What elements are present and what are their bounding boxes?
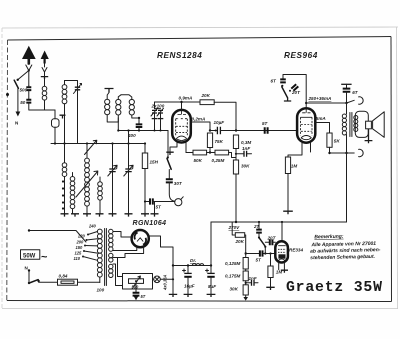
ground bar under cathode: [166, 152, 173, 155]
wire: field coil down to B+ bus: [346, 135, 348, 223]
voice coil: [366, 121, 372, 129]
resistor 50K: [193, 150, 207, 163]
wire: B+ filter line: [173, 265, 211, 267]
coil L5 (bandfilter secondary b): [121, 95, 139, 118]
resistor 20K (screen feed): [232, 222, 246, 254]
wire: socket to AVC bus: [54, 127, 56, 143]
svg-text:30K: 30K: [230, 287, 239, 292]
ground bar row: [61, 214, 159, 217]
coil L9: [98, 177, 103, 214]
variable capacitor CV2 (gang 2): [124, 129, 133, 213]
socket box (pickup jack): [52, 119, 60, 127]
svg-text:220: 220: [77, 234, 86, 239]
wire: cathode row: [186, 152, 193, 154]
wire: grid line y253.5: [246, 253, 276, 255]
svg-text:100: 100: [97, 288, 105, 293]
svg-text:stehenden Schema gebaut.: stehenden Schema gebaut.: [310, 254, 375, 261]
svg-text:RE334: RE334: [289, 248, 303, 253]
capacitor 20T (anode RE334): [265, 236, 276, 246]
trimmer capacitors 2x100: [151, 102, 165, 132]
svg-text:30K: 30K: [241, 164, 250, 169]
capacitor 5T (coupling): [262, 121, 269, 134]
svg-text:Dr.: Dr.: [190, 258, 196, 263]
wire: cathode to 5K: [315, 123, 329, 134]
coil L4 (bandfilter secondary a): [116, 95, 121, 131]
wire: grid top cap line: [155, 102, 201, 110]
svg-text:5T: 5T: [262, 121, 269, 126]
svg-text:1nF: 1nF: [242, 146, 250, 151]
node anode: [209, 129, 211, 131]
wire: RE334 plate riser: [281, 222, 283, 242]
plug (upper): [347, 97, 364, 104]
svg-text:Graetz 35W: Graetz 35W: [286, 280, 383, 296]
coil L7 (osc b with taps): [70, 173, 75, 214]
choke 15H: [142, 142, 158, 213]
earth arrow N: [16, 112, 21, 117]
wire: mains line top: [29, 231, 86, 243]
ground bar over bandfilter: [105, 89, 114, 93]
switch S2 (tone): [167, 156, 172, 169]
switch S-earth: [14, 79, 19, 89]
capacitor 50 (antenna): [20, 100, 55, 110]
resistor 0.175M: [225, 271, 248, 285]
svg-text:20K: 20K: [235, 239, 245, 244]
capacitor 16uF: [183, 266, 195, 298]
capacitor 2T + switch: [253, 222, 266, 255]
capacitor 5T (phone): [144, 198, 175, 209]
wire: lower plug line: [330, 149, 364, 156]
resistor 0.25M: [212, 150, 237, 163]
schematic border frame: [7, 37, 392, 302]
svg-text:1M: 1M: [291, 164, 298, 169]
svg-text:20K: 20K: [201, 93, 211, 98]
svg-text:50: 50: [20, 100, 26, 105]
svg-text:RENS1284: RENS1284: [157, 51, 202, 60]
svg-text:270V: 270V: [228, 225, 241, 230]
svg-text:30T: 30T: [174, 181, 183, 186]
svg-text:240: 240: [88, 224, 97, 229]
svg-text:5mA: 5mA: [316, 116, 326, 121]
fuse 0.84: [39, 273, 100, 285]
capacitor 400: [127, 118, 142, 138]
svg-text:500: 500: [20, 88, 28, 93]
speaker frame: [355, 111, 368, 137]
svg-text:20T: 20T: [291, 90, 301, 95]
svg-text:N: N: [15, 121, 19, 126]
wire: socket top: [54, 110, 56, 119]
svg-text:RGN1064: RGN1064: [133, 220, 167, 227]
tap dots of L7: [62, 180, 64, 209]
wire: sockets to chassis bar x154.5: [154, 202, 156, 214]
wire: drop from bus to tone switch: [167, 131, 169, 158]
wire: RES964 top to 250+36mA line: [305, 103, 307, 108]
mains switch: [25, 265, 40, 284]
dial lamp: [153, 276, 175, 283]
antenna arrow A2 (small): [41, 51, 49, 64]
box 50W: [21, 250, 49, 264]
capacitor 500 (antenna): [20, 86, 32, 100]
svg-text:0,9mA: 0,9mA: [179, 96, 193, 101]
svg-text:Bemerkung:: Bemerkung:: [314, 234, 344, 241]
svg-text:4x0,36A: 4x0,36A: [163, 274, 168, 291]
wire: 250+36mA line: [306, 102, 346, 104]
resistor 30K: [233, 160, 250, 222]
resistor 1M (grid leak RES964): [283, 157, 297, 214]
tap labels: [74, 224, 97, 262]
svg-text:5T: 5T: [256, 258, 263, 263]
svg-text:6T: 6T: [271, 79, 278, 84]
capacitor 10uF: [210, 120, 225, 134]
capacitor 6T (speaker top): [341, 84, 359, 104]
tube RES964: [297, 108, 315, 143]
ground under voice coil: [365, 129, 373, 143]
wire: coupling line to RES964 grid: [225, 130, 297, 132]
wire: bus y130: [118, 130, 168, 132]
heater box with 500 pot: [123, 274, 153, 290]
terminal dot on frame: [6, 93, 9, 96]
resistor 1M (RE334): [266, 254, 282, 291]
tube legs RE334: [279, 262, 285, 270]
wire: CT return to ground: [172, 266, 174, 295]
variable capacitor CV1 (gang 1): [108, 144, 117, 214]
capacitor 1nF (cathode): [236, 146, 252, 157]
svg-text:200: 200: [76, 240, 85, 245]
wire: B+ bus 270V: [211, 221, 347, 223]
capacitor 20T (diag): [289, 84, 301, 95]
primary taps: [82, 232, 97, 261]
tube RE334: [275, 241, 288, 262]
capacitor 6T: [271, 79, 286, 84]
svg-text:250+36mA: 250+36mA: [308, 96, 332, 101]
resistor 0.125M: [225, 254, 248, 272]
transformer heater winding 2: [109, 264, 113, 277]
tube legs RES964: [288, 143, 302, 157]
svg-text:110: 110: [74, 256, 81, 261]
band switch arrow (long): [76, 171, 98, 197]
svg-text:50K: 50K: [194, 158, 203, 163]
band switch arrow (upper): [85, 140, 97, 154]
svg-text:5K: 5K: [334, 138, 341, 143]
wire: RGN anode right: [149, 236, 173, 266]
node grid line / divider: [235, 129, 237, 131]
svg-text:0,2mA: 0,2mA: [192, 116, 206, 121]
svg-text:N: N: [25, 265, 29, 270]
wire: anode 0.2mA: [191, 122, 210, 131]
node coil junction: [138, 117, 140, 119]
resistor 75K: [207, 133, 223, 154]
choke Dr: [190, 258, 204, 265]
svg-text:0,3M: 0,3M: [241, 140, 251, 145]
antenna plug Y2: [42, 64, 47, 77]
svg-text:125: 125: [75, 251, 83, 256]
wire: riser and top bridge: [283, 75, 306, 104]
capacitor 1nF (bottom): [246, 276, 258, 286]
svg-text:15H: 15H: [150, 160, 159, 165]
ground bar under Y2: [41, 77, 48, 79]
trimmer capacitor CT1: [65, 81, 82, 144]
svg-text:6T: 6T: [352, 90, 359, 95]
transformer core: [105, 229, 107, 286]
wire: antenna to earth switch: [18, 71, 29, 80]
antenna plug Y1: [26, 58, 32, 86]
svg-text:5T: 5T: [141, 294, 146, 299]
transformer primary: [97, 229, 102, 282]
coil L8 (tuning main): [85, 144, 90, 214]
capacitor 5T (heater): [133, 283, 146, 300]
tube RENS1284: [172, 110, 191, 143]
field coil (speaker transformer primary): [342, 103, 346, 135]
phone jack: [175, 197, 184, 206]
svg-text:16µF: 16µF: [184, 284, 195, 289]
wire: earth lead: [17, 88, 19, 111]
core lines: [350, 113, 352, 137]
svg-text:10µF: 10µF: [214, 120, 225, 125]
note Bemerkung: [310, 233, 381, 261]
svg-text:~: ~: [41, 252, 48, 264]
capacitor 8uF: [206, 266, 217, 298]
wire: 20K to right, down to 0.25M: [214, 102, 236, 130]
ground bar above socket: [60, 115, 66, 118]
resistor 5K: [327, 133, 340, 153]
tube legs RENS1284: [170, 143, 177, 152]
coil L6 (osc a): [62, 144, 67, 214]
svg-text:RES964: RES964: [284, 51, 318, 60]
svg-text:500: 500: [132, 284, 140, 289]
wire: 270V riser: [210, 222, 212, 266]
wire: AVC bus y143.5: [51, 143, 145, 145]
svg-text:1nF: 1nF: [249, 276, 257, 281]
svg-text:0,175M: 0,175M: [225, 274, 240, 279]
svg-text:150: 150: [76, 245, 84, 250]
coil L3 (bandfilter primary): [105, 93, 119, 123]
node grid line RE334: [245, 252, 247, 254]
svg-text:5T: 5T: [156, 204, 163, 209]
coil L2 (antenna coupling): [62, 81, 67, 144]
resistor 20K (grid): [200, 93, 214, 104]
switch S3: [281, 85, 291, 101]
transformer HV secondary: [109, 229, 113, 251]
svg-text:50W: 50W: [23, 253, 36, 259]
capacitor 30T: [166, 170, 183, 202]
speaker cone: [373, 112, 385, 138]
svg-text:8µF: 8µF: [208, 284, 216, 289]
transformer heater winding 1: [109, 253, 113, 262]
svg-text:0,125M: 0,125M: [225, 261, 240, 266]
secondary coil: [354, 116, 358, 132]
wire: RGN anode left: [113, 232, 132, 238]
svg-text:0,84: 0,84: [59, 273, 68, 278]
resistor 0.3M: [233, 135, 251, 160]
node grid/0.9mA: [180, 101, 182, 103]
node between 50K/0.25M: [207, 152, 215, 154]
antenna arrow A1 (large): [22, 46, 36, 65]
node 1M top: [269, 252, 271, 254]
wire: heater leads: [113, 258, 123, 277]
tube RGN1064: [132, 230, 149, 247]
coil L1 (antenna): [42, 79, 47, 110]
svg-text:75K: 75K: [215, 139, 224, 144]
node: antenna junction: [28, 69, 30, 71]
svg-text:0,25M: 0,25M: [212, 158, 225, 163]
wire: RGN filament leads: [113, 247, 137, 251]
resistor 30K (bottom): [230, 285, 249, 301]
capacitor 5T (RE334 grid): [256, 250, 263, 262]
